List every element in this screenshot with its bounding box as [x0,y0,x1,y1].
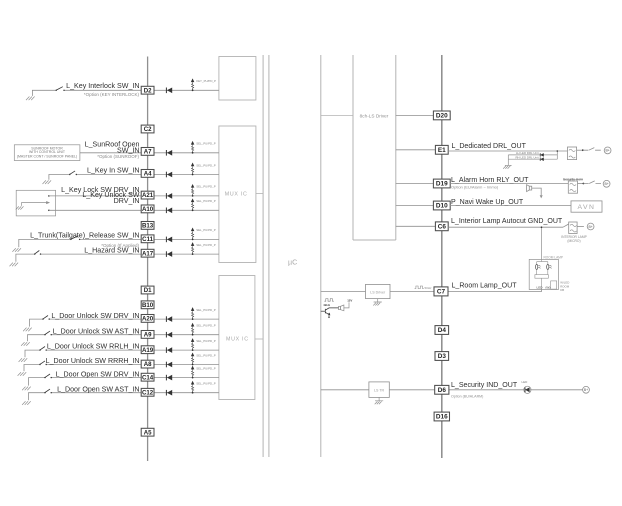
switch key in switch [69,171,77,175]
resistor pull-up A9 [191,323,194,335]
switch trunk release switch [70,236,80,240]
pin C12 [141,388,154,396]
wire horn relay to battery [578,183,584,185]
svg-text:L_Door Unlock SW RRLH_IN: L_Door Unlock SW RRLH_IN [47,343,140,351]
svg-text:A20: A20 [142,316,154,323]
mux output bus line [262,55,264,457]
wire A19 row left segment [46,349,141,351]
wire security LED to battery [529,389,582,391]
svg-text:D2: D2 [144,87,152,94]
wire driver to pin E1 [396,149,436,151]
svg-text:C2: C2 [144,126,152,133]
switch door unlock RRRH switch [39,361,47,365]
wire RH LED DRL unit [508,158,557,160]
resistor pull-up A19 [191,339,194,351]
svg-text:MUX IC: MUX IC [226,337,249,343]
pin D19 [433,179,450,188]
wire LS driver to pin D20 [396,114,434,116]
svg-text:L_Room Lamp_OUT: L_Room Lamp_OUT [452,282,518,289]
ground door open AST switch [22,401,31,405]
svg-text:A5: A5 [144,429,152,436]
wire MUX1 to bus [256,192,263,194]
pin E1 [435,145,448,154]
svg-text:L_Security IND_OUT: L_Security IND_OUT [451,382,518,389]
input buffer box (key interlock) [219,57,256,101]
node key unlock contact [48,210,50,212]
svg-text:L_Key Interlock SW_IN: L_Key Interlock SW_IN [66,82,139,90]
svg-text:B+: B+ [584,388,588,392]
wire A20 switch feed [30,319,44,327]
switch DRL battery feed [583,148,601,151]
diode C11 input [166,237,172,243]
svg-text:C12: C12 [142,389,154,396]
ground LS driver [374,299,382,302]
wire A9 switch feed [28,335,46,342]
B+ supply horn [603,180,610,187]
svg-text:B+: B+ [588,225,592,229]
wire key lock to pin A21 [49,195,141,197]
ground LS TR [375,397,383,400]
ground key lock switch [16,206,24,209]
microcontroller box left edge [268,55,270,457]
switch hazard switch [34,251,41,255]
LED RH DRL [540,157,544,161]
B+ supply DRL [604,147,611,154]
wire A7 row right segment [154,152,219,154]
wire A9 row left segment [51,334,141,336]
B+ supply interior lamp [587,223,594,230]
svg-text:µC: µC [288,258,297,267]
svg-text:A10: A10 [142,206,154,213]
room lamp internal wiring [535,259,557,289]
svg-text:L_Door Unlock SW AST_IN: L_Door Unlock SW AST_IN [53,327,140,335]
svg-text:SEL_PU/PD_P: SEL_PU/PD_P [196,228,216,232]
pin A7 [141,148,154,156]
resistor pull-up C12 [191,381,194,393]
svg-text:A7: A7 [144,149,152,156]
wire DRL relay to battery [577,149,583,151]
pin A20 [141,315,154,323]
svg-text:L_Door Open SW AST_IN: L_Door Open SW AST_IN [57,385,139,393]
wire A21 row right segment [154,195,219,197]
wire A8 switch feed [24,365,40,372]
switch door open DRV switch [44,374,52,378]
wire pin D6 to security LED [449,389,523,391]
svg-text:MUX IC: MUX IC [225,192,248,198]
diode A19 input [166,347,172,353]
wire A4 row right segment [154,174,219,176]
svg-text:SEL_PU/PD_P: SEL_PU/PD_P [196,366,216,370]
svg-text:RH LED DRL Unit: RH LED DRL Unit [515,156,538,160]
wire key unlock to pin A10 [49,209,141,211]
svg-text:Option (BU/ALARM): Option (BU/ALARM) [451,395,483,399]
wire A4 switch feed [49,175,70,180]
LED room lamp left [536,264,541,269]
wire driver to pin D19 [396,183,434,185]
pin C7 [434,287,448,296]
pin D4 [435,326,449,335]
pin D6 [435,385,449,394]
wire LS driver to pin C7 [390,291,434,293]
pin B13 [141,222,154,230]
node key lock contact [48,195,50,197]
diode A7 input [166,150,172,156]
switch interior lamp relay contact [563,224,569,227]
svg-text:L_Door Open SW DRV_IN: L_Door Open SW DRV_IN [56,370,140,378]
wire A17 row right segment [154,253,219,255]
svg-text:C11: C11 [142,236,153,243]
diode C14 input [166,375,172,381]
label PWM 50Hz [415,286,424,289]
wire D2 row left segment [64,89,141,91]
diode A8 input [166,362,172,368]
svg-text:E1: E1 [438,147,446,154]
svg-text:Option (EU/Alarm ~ Immo): Option (EU/Alarm ~ Immo) [451,184,499,189]
resistor pull-up A21 [191,185,194,197]
svg-text:A9: A9 [144,332,152,339]
wire C14 row right segment [154,377,219,379]
svg-text:ROOM LAMP: ROOM LAMP [544,255,563,259]
svg-text:D4: D4 [438,327,447,334]
wire A17 row left segment [41,253,142,255]
wire C12 switch feed [29,393,46,401]
node DRL relay output [582,149,584,151]
svg-text:(MASTER CONT / SUNROOF PANEL): (MASTER CONT / SUNROOF PANEL) [17,154,77,158]
svg-text:SEL_PU/PD_P: SEL_PU/PD_P [196,163,216,167]
wire C14 row left segment [51,377,141,379]
svg-text:SEL_PU/PD_P: SEL_PU/PD_P [196,199,216,203]
pin A4 [141,170,154,178]
chime speaker [339,302,350,310]
svg-text:SEL_PU/PD_P: SEL_PU/PD_P [196,308,216,312]
resistor pull-up A20 [191,308,194,320]
wire A19 row right segment [154,349,219,351]
svg-text:LED: LED [522,380,529,384]
wire sunroof box to pin A7 [80,152,141,154]
switch horn battery feed [583,181,601,184]
pin D10 [433,201,450,210]
wire pin E1 to DRL relay [448,150,567,152]
svg-text:D20: D20 [436,113,448,120]
pin A9 [141,331,154,339]
MUX IC U3 box [219,276,255,400]
svg-text:*Option (KEY INTERLOCK): *Option (KEY INTERLOCK) [84,92,140,97]
sunroof motor unit box [14,145,80,161]
wire A9 row right segment [154,334,219,336]
LED room lamp right [547,264,552,269]
ground arrow horn [540,195,543,198]
pin C6 [435,222,448,231]
relay DRL [568,147,577,160]
wire pin D19 to horn relay [450,183,569,185]
ground chime [328,316,330,318]
wire D2 row right segment [154,89,219,91]
svg-text:SEL_PU/PD_P: SEL_PU/PD_P [196,353,216,357]
svg-text:12V: 12V [347,299,352,303]
svg-text:(W): (W) [545,285,550,289]
ground key interlock switch [26,97,35,101]
room lamp unit box [529,259,558,289]
svg-text:4kHz: 4kHz [323,303,330,307]
svg-text:SEL_PU/PD_P: SEL_PU/PD_P [196,339,216,343]
pin A19 [141,346,154,354]
pin D1 [141,286,154,294]
wire A17 switch feed [16,254,35,262]
svg-text:A21: A21 [142,192,154,199]
svg-text:SEL_PU/PD_P: SEL_PU/PD_P [196,142,216,146]
pin A21 [141,191,154,199]
wire A8 row left segment [46,364,141,366]
wire MUX2 to bus [255,338,263,340]
svg-text:KEY_PU/PD_P: KEY_PU/PD_P [196,79,216,83]
ground hazard switch [10,263,19,267]
svg-text:(MICRO): (MICRO) [567,239,580,243]
wire µC to LS TR [321,389,369,391]
wire pin D10 to AVN [450,205,572,207]
pin A10 [141,205,154,213]
wire driver to pin C6 [396,225,436,227]
wire A8 row right segment [154,364,219,366]
ground door unlock RRRH switch [18,372,27,376]
diode A10 input [166,208,172,214]
LS TR block [369,382,389,398]
diode A4 input [166,172,172,178]
wire C11 row left segment [80,238,142,240]
ground key in switch [43,180,52,184]
svg-text:*Option (SUNROOF): *Option (SUNROOF) [97,154,139,159]
label chime PWM wave [324,299,333,302]
svg-text:A19: A19 [142,347,154,354]
svg-text:LS Driver: LS Driver [370,290,386,294]
LS driver block (room lamp) [366,284,391,298]
svg-text:L_Door Unlock SW DRV_IN: L_Door Unlock SW DRV_IN [51,312,139,320]
svg-text:B+: B+ [605,149,609,153]
wire A19 switch feed [25,350,40,357]
svg-text:LED: LED [537,285,544,289]
microcontroller box right edge [320,55,322,457]
svg-text:L_Key In SW_IN: L_Key In SW_IN [87,166,139,174]
wire LH LED DRL unit [508,154,557,156]
svg-text:A17: A17 [142,250,154,257]
pin D16 [434,412,449,421]
ground door unlock AST switch [21,342,30,346]
svg-text:L_Interior Lamp Autocut GND_OU: L_Interior Lamp Autocut GND_OUT [451,218,563,225]
svg-text:SEL_PU/PD_P: SEL_PU/PD_P [196,324,216,328]
diode A20 input [166,316,172,322]
resistor pull-up C14 [191,366,194,378]
ground door open DRV switch [22,387,31,391]
ground LS TR slashes [375,401,382,404]
ground LS driver slashes [373,303,380,306]
svg-text:D10: D10 [436,203,448,210]
ground door unlock DRV switch [23,328,32,332]
pin D3 [435,352,449,361]
wire A20 row right segment [154,318,219,320]
wire A4 row left segment [76,174,141,176]
svg-text:SEL_PU/PD_P: SEL_PU/PD_P [196,185,216,189]
svg-text:A8: A8 [144,361,152,368]
svg-text:C6: C6 [438,223,447,230]
wire A10 row right segment [154,209,219,211]
MUX IC U2 box [219,126,256,263]
svg-text:C14: C14 [142,374,154,381]
svg-text:D6: D6 [438,387,447,394]
wire C11 switch feed [19,239,71,247]
ground trunk release switch [12,248,21,252]
horn speaker [527,185,542,196]
svg-text:L_Hazard SW_IN: L_Hazard SW_IN [84,246,139,254]
svg-text:D1: D1 [144,287,152,294]
wire C12 row left segment [51,392,141,394]
pin B10 [141,301,154,309]
switch door unlock DRV switch [42,316,50,320]
svg-text:C7: C7 [437,289,446,296]
diode A17 input [166,251,172,257]
resistor pull-up A8 [191,353,194,365]
svg-text:L_Door Unlock SW RRRH_IN: L_Door Unlock SW RRRH_IN [46,357,140,365]
resistor pull-up A10 [191,199,194,211]
wire interior relay to battery [577,226,584,228]
svg-text:SEL_PU/PD_P: SEL_PU/PD_P [196,243,216,247]
relay interior lamp [569,222,577,234]
pin A8 [141,360,154,368]
wire C12 row right segment [154,392,219,394]
diode C12 input [166,390,172,396]
diode A21 input [166,193,172,199]
resistor pull-up A4 [191,163,194,175]
switch door open AST switch [44,389,52,393]
B+ supply security LED [583,386,590,393]
switch key interlock switch [56,87,65,91]
svg-text:A4: A4 [144,171,152,178]
svg-text:D16: D16 [436,414,448,421]
node C6 room lamp tap [541,226,543,228]
LED security indicator [524,386,531,393]
transistor Q1 chime [321,308,339,316]
svg-text:LS TR: LS TR [374,389,385,393]
svg-text:B13: B13 [142,223,154,230]
wire DRL LED ground drop [505,155,512,165]
svg-text:L_Dedicated DRL_OUT: L_Dedicated DRL_OUT [452,143,527,150]
AVN unit box [571,201,602,212]
LED LH DRL [540,153,544,157]
node horn relay output [583,183,585,185]
diode D2 input [166,88,172,94]
left connector bus line [147,57,149,462]
svg-text:B+: B+ [604,182,608,186]
svg-text:LH LED DRL Unit: LH LED DRL Unit [516,151,539,155]
pin D2 [141,86,154,94]
svg-text:SEL_PU/PD_P: SEL_PU/PD_P [196,382,216,386]
wire µC to LS driver (D20 row) [321,114,353,116]
key lock/unlock switch box [16,190,55,216]
pin D20 [433,111,450,120]
wire C6 drop to room lamp [541,227,543,259]
svg-text:L_Trunk(Tailgate)_Release SW_I: L_Trunk(Tailgate)_Release SW_IN [30,232,139,240]
svg-text:8ch-LS Driver: 8ch-LS Driver [360,113,389,118]
svg-text:AVN: AVN [578,204,596,211]
resistor pull-up D2 [191,79,194,91]
wire pin C7 to room lamp [448,290,542,292]
wire µC to LS driver C7 [321,291,366,293]
resistor pull-up A17 [191,243,194,255]
switch door unlock AST switch [44,331,52,335]
switch door unlock RRLH switch [39,347,47,351]
ground LED DRL units [503,166,510,169]
diode A9 input [166,332,172,338]
wire D2 switch feed [32,90,56,96]
node DRL LED branch [557,150,559,152]
resistor pull-up C11 [191,228,194,240]
wire C11 row right segment [154,238,219,240]
ground door unlock RRLH switch [19,358,28,362]
pin A17 [141,249,154,257]
wire A20 row left segment [49,318,141,320]
resistor pull-up A7 [191,142,194,154]
pin C14 [141,373,154,381]
svg-text:B10: B10 [142,302,154,309]
wire DRL LED branch vertical [556,151,558,159]
wire driver to pin D10 [396,205,434,207]
svg-text:D19: D19 [436,181,448,188]
pin C2 [141,125,154,133]
wire LS TR to pin D6 [389,389,434,391]
8ch LS driver box [353,55,396,240]
wire pin C6 to interior lamp relay [448,226,563,228]
pin A5 [141,428,154,436]
svg-text:50Hz: 50Hz [425,286,433,290]
svg-text:D3: D3 [438,353,447,360]
relay security horn [568,181,577,193]
wire C14 switch feed [29,378,46,386]
right connector bus line [441,55,443,458]
pin C11 [141,235,154,243]
